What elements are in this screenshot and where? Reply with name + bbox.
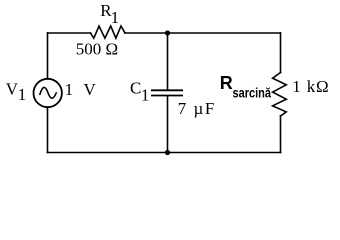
svg-text:7 µF: 7 µF: [178, 99, 215, 118]
svg-text:1: 1: [111, 8, 120, 27]
svg-text:1: 1: [18, 85, 27, 104]
svg-text:C: C: [130, 78, 141, 97]
svg-text:R: R: [220, 73, 233, 93]
svg-text:1 kΩ: 1 kΩ: [292, 77, 329, 96]
svg-text:1: 1: [141, 85, 150, 104]
svg-text:sarcină: sarcină: [233, 84, 272, 100]
svg-text:500 Ω: 500 Ω: [76, 40, 119, 59]
